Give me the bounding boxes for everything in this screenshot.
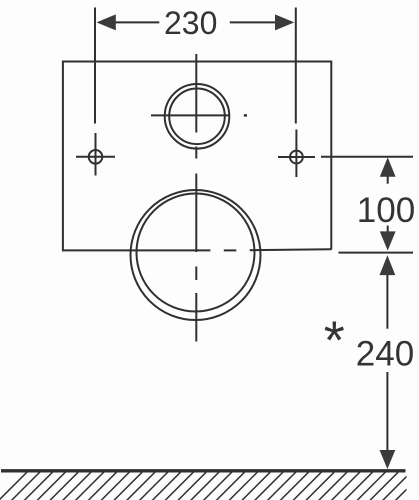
svg-text:240: 240: [356, 335, 414, 374]
vertical centerline dash between holes: [195, 147, 197, 159]
dimension 230 line left segment: [116, 21, 160, 23]
dimension 230 right extension line: [295, 8, 297, 124]
dimension 100 top arrow: [380, 157, 396, 176]
dimension 230 right arrow: [275, 14, 294, 30]
panel outline top edge: [62, 61, 331, 63]
panel bottom edge left segment: [62, 249, 210, 251]
dimension 230 line right segment: [230, 21, 276, 23]
dimension 230 left extension line: [94, 8, 96, 124]
dimension 240 top arrow: [380, 255, 396, 275]
left fixing hole horizontal centerline: [76, 156, 115, 158]
right fixing hole vertical centerline: [295, 130, 297, 178]
floor hatching: [0, 472, 419, 500]
left fixing hole vertical centerline: [95, 133, 97, 176]
flush pipe hole horizontal centerline: [151, 114, 230, 116]
outlet pipe opening inner circle: [137, 194, 255, 312]
svg-text:230: 230: [164, 5, 217, 41]
vertical centerline segment through flush hole: [195, 54, 197, 133]
panel outline left edge: [62, 61, 64, 252]
dimension 240 bottom arrow: [380, 450, 396, 469]
outlet pipe opening outer circle: [131, 190, 261, 320]
svg-text:100: 100: [357, 191, 415, 230]
right fixing hole horizontal centerline: [278, 156, 315, 158]
svg-text:*: *: [324, 311, 345, 371]
vertical centerline bottom segment: [195, 293, 197, 342]
panel outline right edge: [330, 61, 332, 250]
panel bottom edge center dash: [224, 249, 237, 251]
flush pipe hole outer circle: [165, 84, 230, 149]
left fixing hole circle: [89, 150, 103, 164]
flush pipe hole inner circle: [169, 89, 225, 145]
dimension 100 line upper segment: [387, 176, 389, 184]
dimension 100 upper extension line: [321, 156, 413, 158]
dimension 230 left arrow: [97, 14, 116, 30]
dimension 100 bottom arrow: [380, 231, 396, 250]
shared extension line at panel bottom level: [339, 252, 414, 254]
dimension 240 line lower segment: [386, 372, 388, 451]
vertical centerline segment through outlet opening: [195, 174, 197, 253]
vertical centerline dash below outlet center: [195, 267, 197, 281]
dimension 240 line upper segment: [386, 275, 388, 329]
floor line: [1, 469, 406, 472]
dimension 100 line lower segment: [387, 226, 389, 233]
panel bottom edge right segment: [250, 248, 332, 251]
flush pipe hole centerline dot: [244, 114, 247, 116]
right fixing hole circle: [290, 151, 303, 164]
